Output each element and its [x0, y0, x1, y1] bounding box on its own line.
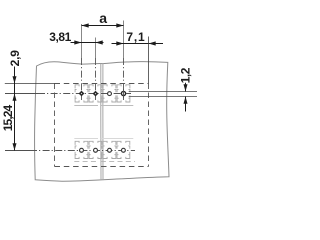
pin 1 diamond [79, 91, 85, 97]
board split double line right [102, 63, 104, 180]
svg-text:15,24: 15,24 [1, 104, 15, 131]
pad top row 1 [75, 85, 88, 102]
pad bottom row 3 [103, 141, 116, 158]
dimension a: right arrow [116, 23, 123, 27]
extension line column 1 [81, 24, 83, 58]
dashed connector outline right edge [148, 84, 150, 167]
extension line column 2 [95, 38, 97, 59]
dimension 7,1: left tail and arrow [112, 43, 124, 45]
pin 8 ring bottom [121, 148, 125, 152]
centerline row 1 [5, 93, 38, 95]
dimension a: line [82, 25, 124, 27]
dashed connector outline top edge [55, 83, 149, 85]
svg-text:1,2: 1,2 [178, 67, 192, 83]
svg-text:a: a [99, 10, 107, 26]
housing inner line below row 1 [74, 105, 98, 107]
pad top row 2 [89, 85, 102, 102]
centerline column 1 [81, 58, 83, 100]
pin 5 ring bottom [80, 148, 84, 152]
pad bottom row 2 [89, 141, 102, 158]
centerline column 4 [123, 58, 125, 100]
pad bottom row 1 [75, 141, 88, 158]
centerline through pin 4 [123, 89, 125, 98]
pin 4 ring [121, 91, 125, 95]
pin 2 diamond [93, 91, 99, 97]
dimension 15,24: shaft [14, 94, 16, 151]
svg-text:2,9: 2,9 [8, 50, 22, 67]
dashed connector outline bottom edge [55, 166, 149, 168]
centerline row 2 [5, 150, 30, 152]
dimension 15,24: top arrow [13, 94, 17, 101]
extension lines pin width 1,2 [129, 91, 197, 93]
dimension 3,81: right arrow and tail [96, 40, 103, 44]
dimension 15,24: bottom arrow [13, 143, 17, 150]
pad bottom row 4 [117, 141, 130, 158]
dashed connector outline left edge [54, 84, 56, 167]
dimension 1,2: top shaft and arrow [185, 83, 187, 92]
dimension 2,9: shaft [14, 67, 16, 94]
svg-text:7,1: 7,1 [126, 30, 145, 44]
dimension a: left arrow [82, 23, 89, 27]
dimension 1,2: bottom arrow and tail [184, 97, 188, 104]
housing inner line above row 2 [74, 138, 98, 140]
PCB board outline (hand-drawn wavy rectangle) [35, 62, 169, 182]
extension line right edge of outline [148, 37, 150, 84]
extension line column 4 [123, 21, 125, 59]
dimension 2,9: top arrow [13, 76, 17, 83]
dimension 3,81: left tail and arrow [71, 42, 82, 44]
pad top row 4 [117, 85, 130, 102]
centerline column 2 [95, 58, 97, 100]
pin 6 ring bottom [94, 148, 98, 152]
extension line outline top edge to left [5, 83, 55, 85]
light dashed housing line below row 2 [74, 161, 97, 163]
svg-text:3,81: 3,81 [49, 30, 71, 44]
pin 3 ring [108, 92, 112, 96]
pad top row 3 [103, 85, 116, 102]
pin 7 ring bottom [108, 148, 112, 152]
dimension 7,1: span line [124, 43, 149, 45]
dimension 7,1: right arrow and tail [149, 41, 156, 45]
board split double line left [100, 63, 102, 180]
dimension 3,81: span line [82, 42, 96, 44]
